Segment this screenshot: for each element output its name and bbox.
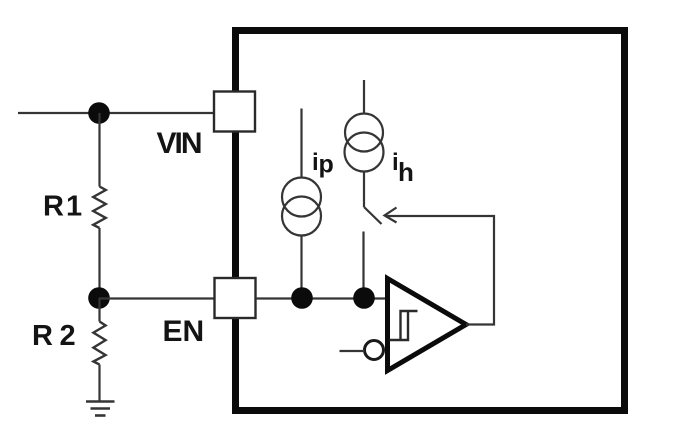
wire: R1 down to EN junction [98, 228, 100, 298]
svg-text:R: R [43, 191, 64, 223]
svg-text:EN: EN [163, 315, 205, 348]
wire: VIN input from left to VIN pin [18, 112, 214, 114]
node: EN divider junction [88, 287, 110, 309]
inverting enable bubble [365, 341, 384, 360]
svg-text:R: R [32, 320, 53, 352]
wire: EN internal rail to Schmitt input [256, 297, 388, 299]
label VIN [157, 127, 203, 160]
wire: feedback from output to switch [385, 216, 494, 325]
label R2 [32, 320, 76, 352]
wire: junction down to R1 [98, 113, 100, 187]
arrow: feedback actuates switch [385, 208, 397, 223]
svg-text:2: 2 [60, 320, 76, 352]
node: VIN divider junction [88, 102, 110, 124]
pin EN (package terminal square) [215, 278, 256, 318]
current source ih [345, 80, 384, 172]
label EN [163, 315, 205, 348]
op-amp U1 (Schmitt trigger buffer) [388, 279, 467, 371]
wire: junction to EN pin [99, 297, 215, 299]
svg-text:h: h [398, 157, 414, 187]
svg-text:p: p [319, 151, 334, 179]
label R1 [43, 191, 82, 223]
label ip [312, 149, 334, 179]
resistor R2 [93, 298, 105, 365]
svg-text:VIN: VIN [157, 127, 203, 160]
hysteresis symbol [390, 311, 418, 340]
node: switch to EN rail [353, 287, 375, 309]
current source ip [282, 109, 321, 299]
svg-text:1: 1 [66, 191, 82, 223]
wire: R2 to ground [98, 365, 100, 402]
wire: bubble input stub [340, 350, 365, 352]
pin VIN (package terminal square) [214, 92, 255, 132]
IC boundary box [236, 31, 625, 411]
switch S1 (blade and wires) [364, 171, 382, 298]
ground [86, 402, 115, 416]
resistor R1 [93, 187, 106, 229]
node: ip to EN rail [291, 287, 313, 309]
label ih [392, 149, 414, 187]
